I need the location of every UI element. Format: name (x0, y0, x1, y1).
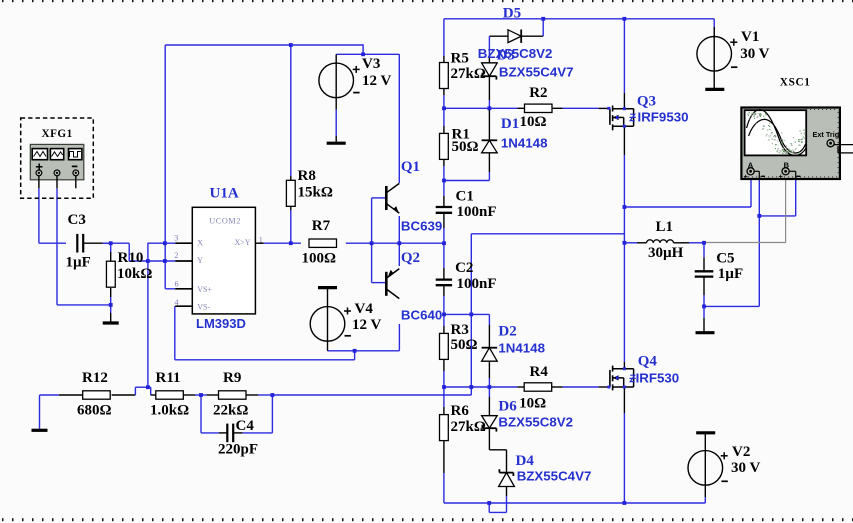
junction Q4 source on -30V rail (623, 501, 627, 505)
svg-text:1N4148: 1N4148 (501, 136, 548, 151)
Q3 substrate glyph (629, 114, 635, 120)
wire feedback row to switch node (272, 394, 471, 396)
svg-text:50Ω: 50Ω (451, 337, 478, 353)
svg-text:IRF530: IRF530 (636, 371, 680, 386)
wire R5 bottom lead (443, 88, 445, 95)
ground under R10 (103, 321, 119, 324)
wire Q2 base jog (371, 243, 373, 282)
wire Y feedback vertical (147, 261, 149, 387)
svg-text:+: + (779, 172, 784, 181)
U1A pin lead Y (175, 260, 192, 262)
resistor R3 (440, 333, 449, 359)
wire R6 top lead (443, 387, 445, 407)
svg-text:V2: V2 (732, 444, 750, 460)
svg-text:Q4: Q4 (638, 354, 658, 370)
diode D5 (508, 30, 521, 43)
svg-text:XFG1: XFG1 (42, 128, 73, 140)
wire switch sense horizontal (471, 233, 624, 235)
wire L1 right lead (674, 242, 690, 244)
svg-text:30 V: 30 V (740, 46, 769, 62)
svg-text:R3: R3 (451, 322, 469, 338)
dc source V2 (688, 451, 723, 486)
V4 minus (345, 335, 351, 337)
wire R11 right lead (183, 394, 195, 396)
U1A pin lead X (175, 242, 192, 244)
wire node C2/D2 row (444, 313, 490, 315)
transistor Q2 BC640 (385, 272, 388, 296)
svg-text:1.0kΩ: 1.0kΩ (150, 403, 189, 419)
ground under V3 (327, 142, 346, 145)
junction C2/R3/D2 node (442, 313, 446, 317)
junction C5 bottom ground node (702, 305, 706, 309)
svg-text:10Ω: 10Ω (519, 396, 546, 412)
resistor R11 (156, 391, 184, 399)
svg-text:R5: R5 (451, 50, 469, 66)
svg-text:D5: D5 (503, 6, 521, 22)
svg-text:12 V: 12 V (362, 73, 391, 89)
junction L1 left on switch node (623, 241, 627, 245)
resistor R9 (219, 391, 247, 399)
svg-text:R2: R2 (529, 85, 547, 101)
V3 plus (353, 68, 360, 70)
wire V3 node jog (362, 44, 364, 54)
V3 minus (353, 92, 359, 94)
svg-text:VS-: VS- (197, 302, 210, 311)
wire R4 right to Q4 gate (552, 386, 563, 388)
V2 minus (721, 480, 727, 482)
svg-text:100nF: 100nF (457, 276, 497, 292)
svg-text:R9: R9 (223, 370, 241, 386)
zener diode D4 (499, 472, 513, 474)
svg-text:V4: V4 (355, 301, 374, 317)
wire R5 top lead (443, 19, 445, 56)
ground above V4 (318, 286, 337, 289)
wire VS+ supply vertical (164, 45, 166, 289)
Q4 substrate glyph (629, 375, 635, 381)
XFG1 terminals (36, 170, 42, 176)
wire V1 top lead (713, 19, 715, 27)
resistor R2 (525, 104, 553, 112)
svg-text:Q2: Q2 (401, 250, 420, 266)
wire R1 bottom lead (443, 159, 445, 166)
svg-text:R10: R10 (118, 250, 144, 266)
wire Q1 base jog (371, 198, 373, 243)
op-amp comparator U1A box (192, 207, 255, 314)
svg-text:1N4148: 1N4148 (498, 341, 545, 356)
wire R7 out to bases/emitters (346, 242, 444, 244)
XFG1 minus sign (72, 165, 78, 167)
ground under R12 (32, 429, 48, 432)
wire R12-R11 jog (112, 394, 136, 396)
wire C5 bottom lead (703, 277, 705, 295)
wire R10 ground stub (110, 305, 112, 313)
svg-text:22kΩ: 22kΩ (213, 403, 248, 419)
XFG1 plus sign (36, 166, 43, 168)
zener diode D3 (482, 62, 498, 64)
wire XFG1 common to R10 foot (56, 188, 58, 305)
svg-text:12 V: 12 V (352, 317, 381, 333)
wire C5 ground stub (703, 306, 705, 318)
svg-text:R7: R7 (312, 218, 331, 234)
svg-text:100nF: 100nF (457, 204, 497, 220)
XSC1 B terminal (782, 168, 789, 175)
svg-text:1µF: 1µF (66, 255, 91, 271)
junction R8 top on +12V rail (289, 43, 293, 47)
wire R3 top lead (443, 314, 445, 326)
wire D2 bottom lead (488, 361, 490, 378)
junction R10 bottom common node (109, 303, 113, 307)
junction D3/D1/R2 node (488, 106, 492, 110)
junction R1/C1/D1 node (442, 179, 446, 183)
svg-text:680Ω: 680Ω (77, 403, 112, 419)
wire switch node column (623, 126, 625, 155)
svg-text:UCOM2: UCOM2 (209, 216, 241, 225)
dc source V4 (310, 307, 345, 342)
junction L1/C5 output node (702, 241, 706, 245)
V2 plus (721, 455, 728, 457)
inductor L1 (647, 240, 674, 243)
wire C3 right lead (83, 242, 103, 244)
wire switch sense vertical (470, 234, 472, 395)
diode D1 (482, 139, 498, 141)
mosfet Q3 IRF9530 (609, 108, 611, 124)
svg-text:R4: R4 (530, 364, 549, 380)
resistor R12 (83, 391, 111, 399)
svg-text:15kΩ: 15kΩ (298, 184, 333, 200)
svg-text:R8: R8 (298, 168, 316, 184)
wire top rail +30V (444, 18, 714, 20)
wire comparator output row (264, 242, 301, 244)
junction R5/R1/R2 node (442, 106, 446, 110)
svg-text:C5: C5 (716, 251, 734, 267)
wire Q3 drain column (623, 19, 625, 93)
wire C1 top lead (443, 181, 445, 197)
junction R9/C4 right node (271, 393, 275, 397)
wire R9 left lead (201, 394, 207, 396)
svg-text:VS+: VS+ (197, 285, 212, 294)
diode D2 (482, 347, 498, 349)
junction R8 bottom on output row (289, 241, 293, 245)
junction V4 minus tee (353, 349, 357, 353)
wire C2 bottom lead (443, 285, 445, 296)
wire R3 bottom lead (443, 359, 445, 371)
wire R8 top lead (290, 45, 292, 176)
junction sense wire crossing lower (469, 385, 473, 389)
grid dots (sheet edge) (2, 0, 4, 2)
capacitor C3 (76, 234, 78, 253)
svg-text:6: 6 (175, 279, 179, 288)
svg-text:Q3: Q3 (637, 93, 656, 109)
junction X row VS+ crossing (163, 241, 167, 245)
resistor R10 (106, 261, 115, 287)
wire +12V rail top-left (165, 44, 363, 46)
wire C3 to Y jog (103, 242, 129, 244)
wire V4 minus row (328, 350, 400, 352)
svg-text:R6: R6 (451, 403, 470, 419)
capacitor C1 (436, 206, 452, 208)
wire gate row R4 (444, 386, 517, 388)
wire comparator X input (148, 242, 175, 244)
transistor Q1 BC639 (385, 186, 388, 210)
svg-text:D4: D4 (516, 453, 535, 469)
wire R9 right lead (246, 394, 258, 396)
wire scope grounds net (704, 305, 759, 307)
V4 plus (344, 310, 351, 312)
XSC1 ext trig terminal (827, 140, 834, 147)
svg-text:Ext Trig: Ext Trig (813, 130, 840, 139)
wire D5 cathode to rail (521, 35, 543, 37)
wire XFG1 plus to C3 (38, 188, 40, 243)
svg-text:BC640: BC640 (401, 308, 442, 323)
wire C5 top lead (703, 243, 705, 258)
svg-text:D2: D2 (498, 324, 516, 340)
wire C2 top lead (443, 243, 445, 268)
junction scope ground tee (757, 214, 761, 218)
junction D4 return on -30V rail (487, 501, 491, 505)
capacitor C5 (695, 270, 714, 272)
wire C4 right branch (233, 432, 243, 434)
wire node C1/D1 row (444, 180, 490, 182)
resistor R1 (440, 133, 449, 159)
svg-text:U1A: U1A (210, 185, 239, 201)
junction Q1/Q2 emitter tee (397, 241, 401, 245)
wire D6 to D4 jog (488, 428, 490, 450)
wire R1 top lead (443, 108, 445, 126)
resistor R6 (440, 415, 449, 441)
svg-text:1: 1 (259, 235, 263, 244)
svg-text:R11: R11 (156, 370, 181, 386)
wire D1 top lead (488, 108, 490, 140)
wire D6 top lead (488, 387, 490, 397)
function generator XFG1 dashed box (21, 118, 94, 198)
mosfet Q4 IRF530 (609, 370, 611, 387)
svg-text:C2: C2 (455, 260, 473, 276)
U1A pin lead VS- (175, 305, 192, 307)
zener diode D6 (482, 415, 498, 417)
wire -30V bottom rail (444, 502, 705, 504)
wire L1 left lead (624, 242, 637, 244)
resistor R8 (286, 180, 295, 206)
junction Y input feedback node (146, 259, 150, 263)
ground under V1 (705, 88, 724, 91)
svg-text:BZX55C8V2: BZX55C8V2 (478, 46, 553, 61)
resistor R7 (309, 239, 337, 247)
junction driver output C1/C2 node (442, 241, 446, 245)
svg-text:V3: V3 (362, 56, 380, 72)
svg-text:X: X (197, 239, 203, 248)
svg-text:2: 2 (174, 251, 178, 260)
V1 plus (730, 41, 737, 43)
svg-text:C1: C1 (456, 188, 474, 204)
junction R11/R9/C4 node (199, 393, 203, 397)
junction Q3 drain on +30V rail (623, 17, 627, 21)
wire R10 leads (110, 243, 112, 252)
capacitor C2 (436, 278, 452, 280)
wire C1 bottom lead (443, 213, 445, 228)
XFG1 front panel with waveform buttons (30, 144, 84, 179)
wire R2 right to Q3 gate (552, 107, 563, 109)
svg-text:X>Y: X>Y (235, 238, 251, 247)
svg-text:XSC1: XSC1 (780, 77, 811, 89)
svg-text:10kΩ: 10kΩ (117, 266, 152, 282)
capacitor C4 (226, 424, 228, 443)
dc source V3 (319, 63, 354, 98)
wire Q1 emitter to out node (398, 216, 400, 243)
wire scope B pickup (gray) (785, 175, 787, 243)
wire Q2 emitter to out node (398, 243, 400, 266)
junction C3/R10/X input node (109, 241, 113, 245)
svg-text:220pF: 220pF (218, 442, 258, 458)
wire D3 bottom lead (488, 76, 490, 100)
junction Q1/Q2 base tee (370, 241, 374, 245)
junction D5 cathode on +30V rail (541, 17, 545, 21)
U1A pin lead VS+ (175, 288, 192, 290)
wire R6 bottom lead (443, 440, 445, 473)
wire Q4 source column (623, 387, 625, 413)
svg-text:3: 3 (174, 233, 178, 242)
ground above V2 (696, 431, 715, 434)
svg-text:L1: L1 (656, 219, 674, 235)
svg-text:LM393D: LM393D (196, 316, 246, 331)
junction sense wire crossing upper (469, 313, 473, 317)
V1 minus (731, 66, 737, 68)
wire D4 bottom return (506, 487, 508, 497)
oscilloscope XSC1 body and screen (741, 108, 840, 180)
svg-text:30µH: 30µH (648, 245, 684, 261)
wire R12 left lead (59, 394, 83, 396)
wire Q1 collector column (398, 54, 400, 183)
ground under C5 (696, 331, 715, 334)
junction D2/D6/R4 node (488, 385, 492, 389)
svg-text:1µF: 1µF (718, 266, 743, 282)
svg-text:V1: V1 (741, 29, 759, 45)
junction R3/R6/R4 node (442, 385, 446, 389)
svg-text:C3: C3 (68, 212, 86, 228)
resistor R5 (440, 63, 449, 89)
svg-text:C4: C4 (236, 418, 255, 434)
junction scope A pickup on switch node (623, 205, 627, 209)
svg-text:BC639: BC639 (401, 219, 442, 234)
resistor R4 (524, 383, 552, 391)
svg-text:Q1: Q1 (401, 159, 420, 175)
wire R8 bottom lead (290, 206, 292, 210)
wire scope A pickup (624, 206, 751, 208)
svg-text:D1: D1 (501, 116, 519, 132)
svg-text:+: + (744, 172, 749, 181)
wire gate row R2 (444, 107, 517, 109)
svg-text:Y: Y (197, 256, 203, 265)
svg-text:IRF9530: IRF9530 (638, 110, 689, 125)
junction Y row VS+ crossing (163, 259, 167, 263)
svg-text:BZX55C8V2: BZX55C8V2 (498, 415, 573, 430)
svg-text:30 V: 30 V (731, 460, 760, 476)
svg-text:D6: D6 (498, 398, 517, 414)
svg-text:BZX55C4V7: BZX55C4V7 (499, 64, 574, 79)
dc source V1 (697, 37, 732, 72)
junction feedback/R12/R11 node (146, 385, 150, 389)
wire R12 ground stub (40, 394, 59, 396)
wire V2 bottom lead (704, 485, 706, 497)
junction V3 plus node (361, 52, 365, 56)
svg-text:27kΩ: 27kΩ (451, 419, 486, 435)
svg-text:50Ω: 50Ω (452, 139, 479, 155)
svg-text:R12: R12 (82, 370, 108, 386)
svg-text:27kΩ: 27kΩ (451, 66, 486, 82)
XSC1 A terminal (747, 168, 754, 175)
svg-text:BZX55C4V7: BZX55C4V7 (517, 469, 592, 484)
wire VS- to V4 minus (174, 306, 176, 360)
wire D5 anode drop (489, 35, 508, 37)
wire C4 left branch (200, 395, 202, 433)
svg-text:100Ω: 100Ω (302, 250, 337, 266)
svg-text:10Ω: 10Ω (520, 114, 547, 130)
